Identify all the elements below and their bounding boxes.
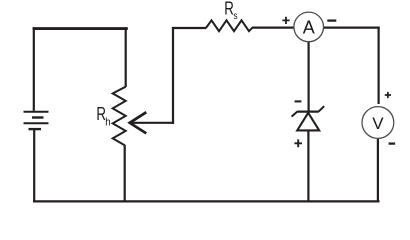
zener diode D1 left bend	[292, 111, 298, 116]
battery B1 plate long lower	[24, 122, 49, 124]
ammeter A1 circle	[294, 12, 324, 42]
battery B1 plate short bottom	[29, 128, 42, 130]
wiper arrowhead of Rh	[130, 112, 147, 133]
rheostat Rh zigzag	[113, 87, 126, 146]
wire ammeter to top-right corner	[323, 27, 379, 29]
zener minus label	[295, 100, 302, 102]
wire top-left battery to Rh (thick)	[33, 27, 128, 30]
wire right rail upper	[378, 27, 380, 105]
battery B1 plate long top	[24, 111, 49, 113]
svg-text:s: s	[233, 10, 237, 22]
wire right rail lower	[377, 139, 379, 202]
voltmeter V1 circle	[362, 107, 394, 139]
voltmeter minus label	[389, 142, 396, 144]
wire bottom rail	[33, 200, 380, 202]
ammeter minus label	[327, 19, 336, 21]
svg-text:h: h	[105, 117, 110, 129]
wire left rail lower	[33, 129, 35, 202]
zener plus label	[294, 139, 302, 147]
svg-text:V: V	[372, 114, 384, 133]
resistor Rs zigzag	[206, 20, 252, 31]
wire Rh top lead	[125, 27, 127, 87]
wire ammeter down to zener	[308, 42, 310, 111]
voltmeter plus label	[385, 92, 391, 98]
wire wiper riser	[172, 27, 174, 124]
battery B1 plate short	[32, 116, 44, 118]
wire top to Rs	[172, 27, 207, 29]
wire Rh bottom lead	[124, 145, 126, 202]
wire Rs to ammeter	[252, 27, 294, 29]
wire wiper arm	[132, 122, 175, 124]
ammeter plus label	[282, 17, 289, 24]
zener diode D1 right bend	[319, 106, 325, 111]
svg-text:A: A	[303, 17, 315, 37]
wire left rail upper	[33, 27, 35, 111]
zener diode D1 cathode bar	[297, 110, 318, 112]
zener diode D1 triangle anode	[297, 113, 319, 131]
wire zener to bottom rail	[307, 130, 309, 202]
